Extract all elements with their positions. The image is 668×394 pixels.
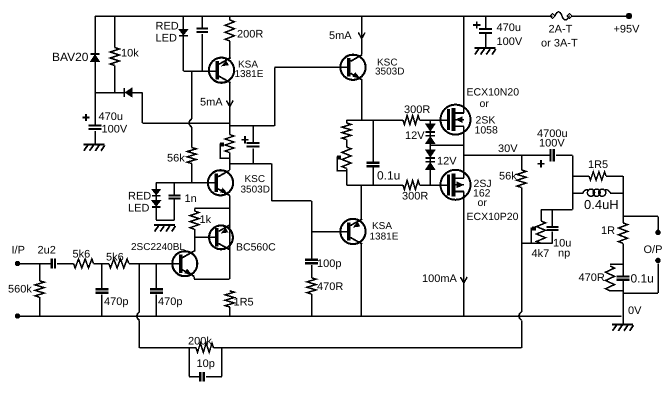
svg-text:12V: 12V: [405, 130, 425, 142]
resistor R15 1R5: [588, 159, 608, 180]
wire: [622, 291, 624, 324]
svg-text:or 3A-T: or 3A-T: [541, 38, 578, 50]
wire: [182, 16, 184, 30]
svg-text:ECX10N20: ECX10N20: [467, 87, 520, 99]
transistor Q4 2SC2240BL: [131, 242, 197, 276]
svg-text:RED: RED: [128, 191, 151, 203]
LED D4 RED: [128, 189, 161, 214]
wire 5mA collector: [229, 83, 231, 127]
wire: [521, 320, 523, 347]
svg-text:100mA: 100mA: [422, 273, 458, 285]
svg-text:LED: LED: [128, 203, 149, 215]
svg-text:470p: 470p: [104, 296, 128, 308]
svg-text:100p: 100p: [317, 258, 341, 270]
wire: [229, 153, 231, 164]
wire: [194, 237, 196, 251]
wire gate N: [347, 119, 404, 121]
svg-text:470u: 470u: [99, 111, 123, 123]
svg-text:1058: 1058: [475, 125, 499, 137]
wire: [155, 183, 157, 190]
resistor R10 470R: [307, 278, 343, 294]
wire emitter: [229, 195, 231, 279]
svg-text:470p: 470p: [158, 296, 182, 308]
wire: [540, 210, 542, 222]
wire: [94, 131, 96, 144]
wire drain: [463, 16, 465, 113]
svg-text:2u2: 2u2: [38, 245, 56, 257]
wire: [229, 307, 231, 316]
wire: [429, 120, 431, 124]
wire: [485, 34, 487, 48]
svg-text:56k: 56k: [167, 153, 185, 165]
wire: [252, 148, 254, 163]
zener Z1 12V: [405, 124, 435, 142]
wire: [541, 209, 573, 211]
svg-text:10p: 10p: [197, 358, 215, 370]
svg-text:560k: 560k: [8, 284, 32, 296]
svg-text:1381E: 1381E: [235, 69, 264, 80]
ground: [474, 48, 496, 55]
wire base: [156, 182, 215, 184]
wire: [522, 242, 553, 244]
wire: [201, 34, 203, 71]
wire: [57, 263, 74, 265]
capacitor C3: [241, 136, 259, 148]
wire: [155, 264, 157, 317]
diode D2: [123, 88, 132, 97]
svg-text:200R: 200R: [237, 29, 263, 41]
wire: [229, 16, 231, 20]
wire: [230, 125, 275, 127]
capacitor C10 0.1u: [367, 162, 401, 183]
wire: [361, 80, 363, 120]
label 5mA arrow: [329, 30, 365, 42]
svg-text:2SC2240BL: 2SC2240BL: [131, 242, 185, 253]
svg-text:5mA: 5mA: [200, 97, 223, 109]
svg-text:30V: 30V: [498, 143, 518, 155]
svg-text:KSA: KSA: [372, 221, 392, 232]
zener Z3 12V: [426, 150, 458, 168]
wire: [272, 200, 312, 202]
wire: [429, 133, 431, 150]
svg-text:3503D: 3503D: [241, 185, 270, 196]
wire: [572, 155, 574, 209]
zener Z2 12V: [426, 135, 435, 144]
label 5mA arrow: [200, 97, 233, 109]
trimmer VR1: [220, 135, 234, 159]
label 0V: [628, 305, 642, 317]
resistor R16 1R: [601, 223, 628, 243]
svg-text:300R: 300R: [402, 191, 428, 203]
wire: [610, 263, 623, 265]
wire: [361, 16, 363, 55]
wire feedback tap: [138, 264, 140, 313]
svg-text:I/P: I/P: [12, 245, 25, 257]
resistor R17 470R: [579, 266, 615, 291]
capacitor C8 10p: [197, 358, 215, 381]
wire gate P: [347, 184, 404, 186]
wire hop: [137, 312, 140, 320]
capacitor C4 1n: [168, 193, 196, 205]
capacitor C9 100p: [305, 258, 341, 270]
transistor Q1 KSA1381E: [209, 58, 264, 83]
wire: [275, 66, 348, 68]
svg-text:or: or: [480, 98, 490, 110]
svg-text:or: or: [478, 197, 488, 209]
resistor R4 1k: [190, 211, 212, 229]
svg-text:470u: 470u: [497, 22, 521, 34]
wire +95V top supply rail: [95, 15, 629, 17]
wire: [194, 208, 196, 237]
wire: [573, 192, 624, 194]
wire: [230, 163, 272, 165]
wire: [129, 263, 179, 265]
wire: [183, 70, 216, 72]
svg-text:O/P: O/P: [644, 244, 663, 256]
node O/P+ terminal: [644, 230, 663, 256]
svg-text:+95V: +95V: [614, 24, 641, 36]
node input ground terminal: [15, 313, 20, 318]
wire: [485, 16, 487, 28]
capacitor C13 0.1u: [617, 272, 654, 286]
transistor Q7 2SJ162 ECX10P20: [441, 170, 519, 223]
wire: [622, 176, 624, 216]
svg-text:3503D: 3503D: [375, 67, 404, 78]
zener Z4 12V: [426, 161, 435, 170]
wire: [420, 184, 447, 186]
wire base KSA: [312, 231, 348, 233]
wire: [556, 154, 573, 156]
svg-text:1k: 1k: [200, 214, 212, 226]
resistor R14 56k: [499, 170, 526, 188]
wire: [521, 155, 523, 243]
svg-text:0.4uH: 0.4uH: [584, 197, 619, 212]
resistor R2 200R: [225, 20, 263, 41]
capacitor C1 470u 100V: [82, 111, 127, 136]
wire hop: [189, 119, 192, 127]
svg-text:0.1u: 0.1u: [631, 272, 654, 286]
wire bias feed: [142, 122, 229, 124]
wire: [194, 278, 230, 280]
wire: [94, 263, 109, 265]
svg-text:1n: 1n: [185, 193, 197, 205]
svg-text:np: np: [558, 248, 570, 260]
wire: [39, 264, 41, 317]
resistor R1 10k: [110, 48, 139, 66]
wire: [94, 62, 96, 125]
label 100mA arrow: [422, 273, 467, 285]
svg-text:10k: 10k: [121, 48, 139, 60]
resistor R3 56k: [167, 148, 196, 165]
svg-text:2A-T: 2A-T: [549, 24, 573, 36]
wire: [274, 67, 276, 126]
wire: [114, 16, 116, 48]
wire: [195, 207, 230, 209]
inductor L1 0.4uH: [583, 189, 619, 212]
svg-text:BC560C: BC560C: [236, 242, 276, 254]
resistor R9 200k: [188, 336, 214, 353]
wire emitter: [360, 185, 362, 219]
wire: [623, 263, 658, 293]
wire: [346, 120, 348, 147]
resistor R12: [342, 123, 351, 140]
svg-text:KSC: KSC: [245, 174, 266, 185]
svg-text:300R: 300R: [404, 104, 430, 116]
wire: [372, 120, 374, 185]
resistor R5 1R5: [225, 291, 253, 309]
wire: [214, 347, 522, 349]
wire: [573, 175, 624, 177]
wire: [346, 168, 348, 185]
trimmer VR3 4k7: [531, 221, 549, 260]
wire 30V: [464, 143, 550, 155]
svg-text:5mA: 5mA: [329, 30, 352, 42]
capacitor C5 2u2: [38, 245, 57, 269]
LED D5: [152, 201, 161, 208]
wire: [206, 348, 222, 377]
node I/P terminal: [12, 245, 25, 267]
svg-text:1R5: 1R5: [588, 159, 608, 171]
ground: [154, 225, 176, 232]
svg-text:12V: 12V: [437, 156, 457, 168]
svg-text:ECX10P20: ECX10P20: [467, 211, 519, 223]
capacitor C11 470u 100V: [473, 21, 523, 48]
wire: [201, 16, 203, 27]
wire drain: [463, 191, 465, 316]
capacitor C12 4700u 100V: [537, 128, 568, 167]
wire hop: [519, 312, 522, 320]
transistor Q3 BC560C: [209, 225, 276, 254]
svg-text:100V: 100V: [539, 138, 565, 150]
wire: [193, 276, 195, 279]
wire: [173, 183, 175, 221]
wire: [138, 320, 140, 347]
wire: [229, 164, 231, 171]
wire: [94, 16, 96, 53]
resistor R13 300R: [402, 181, 428, 203]
resistor R6 5k6: [73, 249, 94, 269]
wire: [191, 164, 193, 183]
wire: [429, 159, 431, 185]
capacitor C2: [196, 27, 208, 33]
resistor R11 300R: [403, 104, 430, 125]
wire: [521, 243, 523, 312]
wire: [156, 197, 174, 221]
svg-text:RED: RED: [156, 21, 179, 33]
wire: [132, 92, 142, 94]
ground: [612, 324, 634, 331]
wire: [95, 92, 123, 94]
wire: [430, 144, 464, 146]
svg-text:4k7: 4k7: [532, 248, 550, 260]
wire: [229, 123, 231, 135]
resistor R8 560k: [8, 281, 44, 297]
wire: [622, 216, 624, 264]
svg-text:0V: 0V: [628, 305, 642, 317]
ground: [83, 144, 105, 151]
svg-text:0.1u: 0.1u: [377, 169, 400, 183]
wire: [311, 201, 313, 259]
svg-text:LED: LED: [156, 33, 177, 45]
svg-text:1381E: 1381E: [370, 232, 399, 243]
svg-text:5k6: 5k6: [73, 249, 91, 261]
wire collector: [360, 244, 362, 316]
wire base: [195, 236, 216, 238]
transistor Q5 KSC3503D: [340, 55, 404, 80]
wire: [114, 66, 116, 93]
wire: [191, 127, 193, 147]
svg-text:100V: 100V: [497, 36, 523, 48]
wire: [551, 210, 553, 244]
wire: [18, 263, 52, 265]
LED D3 RED: [156, 21, 188, 45]
capacitor C6 470p: [95, 288, 128, 308]
fuse F1 2A-T: [541, 12, 578, 50]
wire source-output: [463, 126, 465, 178]
wire: [610, 290, 623, 292]
node O/P- terminal: [655, 258, 661, 264]
wire: [252, 126, 254, 142]
resistor R7 5k6: [106, 252, 129, 269]
svg-text:1R5: 1R5: [234, 297, 254, 309]
wire: [623, 216, 658, 229]
diode BAV20: [52, 50, 100, 64]
trimmer VR2: [337, 147, 351, 171]
wire: [311, 265, 313, 278]
wire: [311, 294, 313, 316]
wire: [271, 164, 273, 201]
svg-text:470R: 470R: [579, 272, 605, 284]
svg-text:56k: 56k: [499, 171, 517, 183]
svg-text:100V: 100V: [102, 124, 128, 136]
transistor Q2 KSC3503D: [208, 170, 270, 195]
svg-text:BAV20: BAV20: [52, 50, 89, 64]
transistor Q6 ECX10N20 2SK1058: [441, 87, 520, 137]
node +95V terminal: [614, 13, 641, 36]
transistor Q8 KSA1381E: [340, 219, 398, 244]
wire: [182, 37, 184, 71]
wire: [229, 41, 231, 58]
wire: [189, 348, 199, 377]
capacitor C7 470p: [150, 288, 183, 308]
wire: [139, 347, 196, 349]
wire 0V bus: [18, 315, 622, 317]
wire: [101, 264, 103, 317]
svg-text:470R: 470R: [317, 281, 343, 293]
capacitor C14 10u np: [546, 226, 571, 260]
wire: [420, 119, 447, 121]
wire: [191, 71, 193, 119]
wire: [141, 93, 143, 123]
wire: [622, 264, 624, 291]
svg-text:1R: 1R: [601, 225, 615, 237]
